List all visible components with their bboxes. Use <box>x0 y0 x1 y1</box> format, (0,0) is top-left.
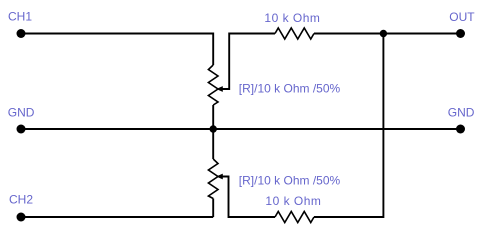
svg-text:[R]/10 k Ohm /50%: [R]/10 k Ohm /50% <box>239 174 341 188</box>
wire R2 to OUT terminal <box>314 33 461 35</box>
wire R1 bottom to GND node <box>212 105 214 129</box>
wiper arrow R1 <box>217 34 275 92</box>
svg-text:10 k Ohm: 10 k Ohm <box>265 194 321 208</box>
wire GND node to top of potentiometer R3 <box>212 129 214 159</box>
svg-text:CH1: CH1 <box>8 9 32 23</box>
terminal CH2 <box>17 213 26 222</box>
junction at OUT node <box>380 30 387 37</box>
wire CH1 to top of potentiometer R1 <box>21 34 213 66</box>
resistor R4 zigzag (bottom 10 k Ohm) <box>275 212 314 223</box>
resistor R2 zigzag (top 10 k Ohm) <box>275 28 314 39</box>
junction GND node at potentiometers <box>210 125 217 132</box>
terminal OUT <box>456 29 465 38</box>
wire R3 bottom to CH2 wire <box>212 199 214 218</box>
svg-text:GND: GND <box>8 105 35 119</box>
svg-text:10 k Ohm: 10 k Ohm <box>264 11 320 25</box>
terminal GND left <box>17 125 26 134</box>
terminal CH1 <box>17 29 26 38</box>
wiper arrow R3 <box>217 174 275 217</box>
terminal GND right <box>456 125 465 134</box>
svg-text:[R]/10 k Ohm /50%: [R]/10 k Ohm /50% <box>239 81 341 95</box>
wire CH2 to bottom of potentiometer R3 <box>21 216 213 218</box>
svg-text:OUT: OUT <box>449 10 475 24</box>
wire GND bus (middle horizontal) <box>21 128 461 130</box>
wire OUT node down to bottom resistor net <box>314 34 383 218</box>
potentiometer R1 body zigzag <box>208 65 218 105</box>
potentiometer R3 body zigzag <box>208 159 218 199</box>
svg-text:GND: GND <box>448 105 475 119</box>
svg-text:CH2: CH2 <box>9 193 33 207</box>
